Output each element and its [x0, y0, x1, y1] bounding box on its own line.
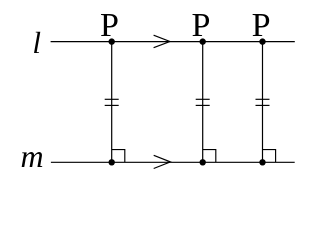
- foot point 1 on line m: [109, 159, 115, 165]
- parallel arrow mark on line m: [154, 155, 171, 168]
- transversal segment 3: [262, 42, 264, 163]
- foot point 3 on line m: [259, 159, 265, 165]
- line l: [51, 41, 295, 43]
- transversal segment 2: [202, 42, 204, 163]
- parallel arrow mark on line l: [154, 35, 170, 48]
- foot point 2 on line m: [200, 159, 206, 165]
- svg-text:P: P: [252, 7, 271, 44]
- double tick mark on segment 2: [196, 99, 210, 105]
- svg-text:l: l: [32, 25, 41, 60]
- svg-text:P: P: [100, 7, 119, 44]
- svg-text:P: P: [191, 7, 210, 44]
- right angle mark at foot 2: [203, 150, 216, 163]
- right angle mark at foot 1: [112, 150, 125, 163]
- double tick mark on segment 1: [105, 99, 119, 105]
- svg-text:m: m: [21, 138, 44, 174]
- right angle mark at foot 3: [263, 150, 276, 163]
- double tick mark on segment 3: [256, 99, 270, 105]
- point P3 on line l: [259, 38, 265, 44]
- point P2 on line l: [200, 38, 206, 44]
- line m: [51, 161, 295, 163]
- point P1 on line l: [109, 38, 115, 44]
- transversal segment 1: [111, 42, 113, 163]
